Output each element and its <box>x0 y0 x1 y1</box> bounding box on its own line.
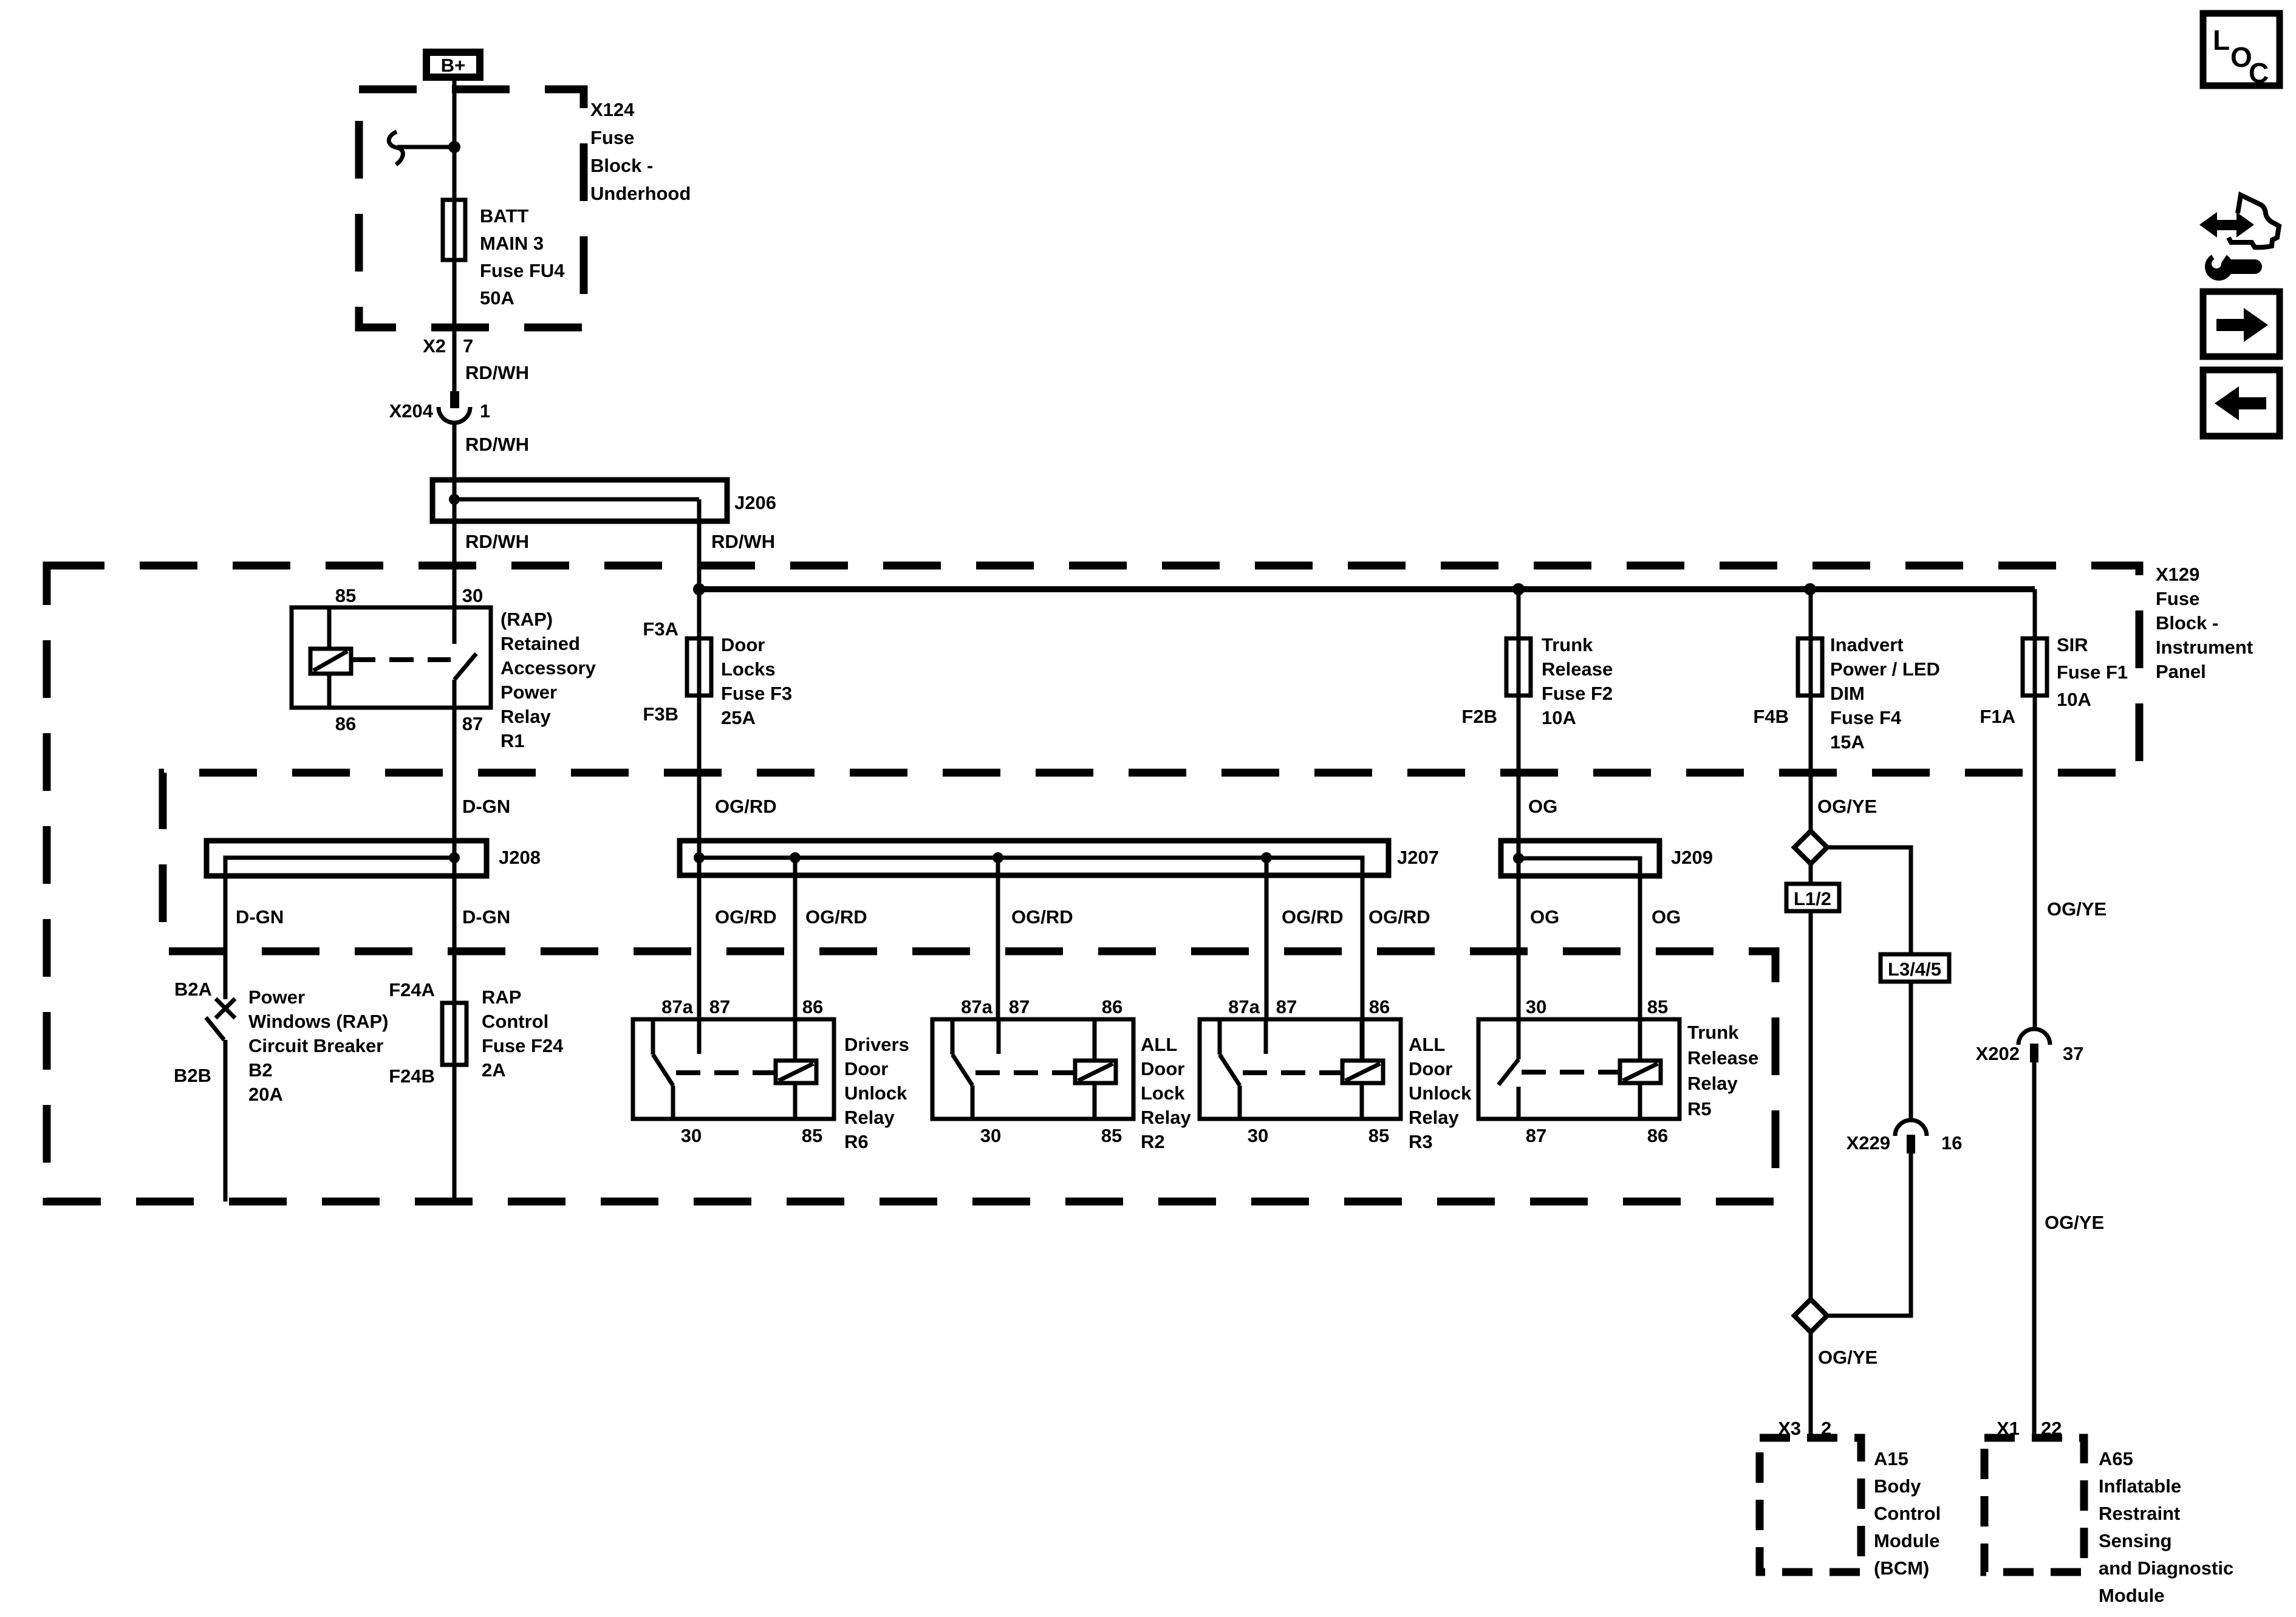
svg-text:86: 86 <box>1102 996 1122 1017</box>
svg-text:85: 85 <box>802 1125 822 1146</box>
diamond splice top on OG/YE <box>1794 831 1827 864</box>
svg-text:Inflatable: Inflatable <box>2099 1475 2181 1497</box>
svg-text:Lock: Lock <box>1141 1082 1185 1104</box>
svg-text:J208: J208 <box>499 847 541 868</box>
svg-text:10A: 10A <box>1542 707 1576 728</box>
connector X204 pin 1 <box>389 391 491 423</box>
splice J206 <box>432 480 776 521</box>
svg-text:Fuse F2: Fuse F2 <box>1542 683 1613 704</box>
svg-text:Relay: Relay <box>501 706 551 727</box>
svg-text:50A: 50A <box>480 287 514 309</box>
relay R6 Drivers Door Unlock <box>633 996 909 1152</box>
svg-text:Sensing: Sensing <box>2099 1530 2172 1551</box>
node A15 label <box>1874 1448 1941 1579</box>
node B+ battery terminal <box>426 52 480 77</box>
svg-text:OG: OG <box>1530 906 1559 928</box>
svg-text:R6: R6 <box>844 1131 869 1152</box>
svg-text:X2: X2 <box>423 335 446 357</box>
svg-text:OG/RD: OG/RD <box>1282 906 1344 928</box>
svg-text:J209: J209 <box>1671 847 1713 868</box>
svg-text:L1/2: L1/2 <box>1794 888 1831 909</box>
fusible link curl symbol <box>389 132 403 165</box>
wire F3 branch down from J206 <box>697 521 702 1054</box>
svg-text:Module: Module <box>1874 1530 1940 1551</box>
svg-text:F3B: F3B <box>643 703 678 725</box>
svg-text:RD/WH: RD/WH <box>465 531 529 552</box>
svg-text:OG/YE: OG/YE <box>2047 898 2106 920</box>
relay R3 ALL Door Unlock <box>1200 996 1472 1152</box>
wire X229 down to diamond <box>1827 1154 1911 1316</box>
forward arrow box <box>2203 292 2280 357</box>
svg-text:20A: 20A <box>248 1084 283 1105</box>
svg-text:Power / LED: Power / LED <box>1830 658 1940 680</box>
wire X202 down to A65 <box>2032 1062 2037 1438</box>
svg-text:Trunk: Trunk <box>1687 1022 1739 1043</box>
svg-text:87a: 87a <box>961 996 993 1017</box>
svg-text:Inadvert: Inadvert <box>1830 634 1904 655</box>
svg-text:Relay: Relay <box>1409 1107 1459 1128</box>
module A15 Body Control Module dashed box <box>1760 1438 1861 1572</box>
svg-text:X202: X202 <box>1976 1043 2020 1064</box>
fuse F4 Inadvert Power / LED DIM 15A <box>1753 634 1939 753</box>
svg-text:Relay: Relay <box>1687 1073 1738 1094</box>
svg-text:ALL: ALL <box>1409 1034 1445 1055</box>
svg-text:Fuse F1: Fuse F1 <box>2057 661 2128 683</box>
svg-text:85: 85 <box>335 585 356 606</box>
wire X204 to J206 <box>453 423 457 607</box>
svg-text:30: 30 <box>681 1125 702 1146</box>
pin X3 2 <box>1778 1418 1831 1439</box>
svg-text:16: 16 <box>1941 1132 1962 1154</box>
node X124 label <box>590 99 691 204</box>
svg-text:X124: X124 <box>590 99 635 120</box>
svg-text:D-GN: D-GN <box>462 906 510 928</box>
wire diamond to L3/4/5 branch <box>1827 847 1911 954</box>
svg-text:OG/YE: OG/YE <box>1817 796 1877 817</box>
svg-text:1: 1 <box>480 400 490 422</box>
svg-text:Relay: Relay <box>844 1107 895 1128</box>
svg-text:OG/RD: OG/RD <box>715 906 777 928</box>
vehicle diagnostic icon <box>2199 195 2279 281</box>
svg-text:87: 87 <box>1009 996 1030 1017</box>
svg-text:Panel: Panel <box>2156 661 2206 682</box>
svg-text:87: 87 <box>462 713 483 734</box>
fuse F24 RAP Control 2A <box>389 979 564 1087</box>
svg-text:86: 86 <box>802 996 823 1017</box>
svg-text:F24B: F24B <box>389 1065 435 1087</box>
circuit breaker B2 Power Windows (RAP) 20A <box>174 979 389 1202</box>
svg-text:R2: R2 <box>1141 1131 1165 1152</box>
svg-text:OG: OG <box>1528 796 1557 817</box>
svg-text:Fuse: Fuse <box>2156 588 2199 609</box>
wire fuse F4 down to diamond <box>1809 589 1813 831</box>
connector X229 pin 16 <box>1847 1120 1963 1154</box>
fuse F2 Trunk Release 10A <box>1461 634 1613 728</box>
relay R1 (RAP) Retained Accessory Power Relay <box>292 585 596 751</box>
wire fuse F2 down to J209 <box>1517 589 1521 1059</box>
svg-text:J207: J207 <box>1397 847 1439 868</box>
fuse block X129 dashed outline <box>47 566 2139 1202</box>
svg-text:10A: 10A <box>2057 689 2091 710</box>
svg-text:and Diagnostic: and Diagnostic <box>2099 1557 2233 1579</box>
svg-text:Fuse F3: Fuse F3 <box>721 683 792 704</box>
wire from curl to battery feed <box>397 145 454 149</box>
svg-text:B+: B+ <box>441 55 466 76</box>
fuse FU4 BATT MAIN 3 50A <box>443 200 565 309</box>
fuse block X124 dashed box <box>359 89 584 327</box>
svg-text:87: 87 <box>1526 1125 1546 1146</box>
svg-text:Fuse: Fuse <box>590 127 634 148</box>
splice J208 <box>207 841 541 999</box>
svg-text:87: 87 <box>1276 996 1297 1017</box>
svg-text:OG/YE: OG/YE <box>1818 1347 1877 1368</box>
svg-text:OG/RD: OG/RD <box>805 906 867 928</box>
module A65 Inflatable Restraint Sensing and Diagnostic Module dashed box <box>1984 1438 2084 1572</box>
svg-text:Underhood: Underhood <box>590 183 691 204</box>
svg-text:Restraint: Restraint <box>2099 1503 2180 1524</box>
svg-text:Block -: Block - <box>590 155 653 176</box>
svg-text:F1A: F1A <box>1980 706 2015 727</box>
svg-text:(BCM): (BCM) <box>1874 1557 1929 1579</box>
svg-text:F3A: F3A <box>643 618 678 640</box>
svg-text:Release: Release <box>1542 658 1613 680</box>
svg-text:Fuse F4: Fuse F4 <box>1830 707 1902 728</box>
svg-text:Fuse FU4: Fuse FU4 <box>480 260 565 281</box>
wire from B+ down through fuse FU4 to connector X204 <box>453 81 457 391</box>
svg-text:25A: 25A <box>721 707 756 728</box>
wire fuse F1 down to X202 <box>2033 589 2037 1030</box>
LOC legend box <box>2203 13 2280 89</box>
svg-text:C: C <box>2249 57 2269 89</box>
svg-text:F24A: F24A <box>389 979 435 1000</box>
wire diamond down to A15 <box>1809 1332 1813 1438</box>
wire J207 to R2 pin 87 <box>996 858 1000 1019</box>
svg-text:R3: R3 <box>1409 1131 1433 1152</box>
wire J207 to R6 pin 86 <box>793 858 798 1019</box>
svg-text:30: 30 <box>1526 996 1546 1017</box>
svg-text:Circuit Breaker: Circuit Breaker <box>248 1035 383 1056</box>
svg-text:A65: A65 <box>2099 1448 2133 1469</box>
svg-text:37: 37 <box>2063 1043 2083 1064</box>
svg-text:ALL: ALL <box>1141 1034 1177 1055</box>
junction <box>448 141 460 153</box>
back arrow box <box>2203 370 2280 436</box>
svg-text:B2: B2 <box>248 1059 273 1081</box>
svg-text:OG/RD: OG/RD <box>1011 906 1073 928</box>
svg-text:RD/WH: RD/WH <box>465 434 529 455</box>
svg-text:86: 86 <box>335 713 356 734</box>
svg-text:Drivers: Drivers <box>844 1034 909 1055</box>
svg-text:Door: Door <box>721 634 765 655</box>
svg-text:2A: 2A <box>482 1059 506 1081</box>
wire R1 pin 87 down through J208 and fuse F24 <box>453 680 457 1202</box>
svg-text:Control: Control <box>1874 1503 1941 1524</box>
node X129 label <box>2156 564 2253 682</box>
svg-text:86: 86 <box>1369 996 1390 1017</box>
relay R5 Trunk Release Relay <box>1478 996 1758 1146</box>
svg-text:Accessory: Accessory <box>501 657 596 679</box>
svg-text:Door: Door <box>1141 1058 1184 1079</box>
svg-text:86: 86 <box>1647 1125 1668 1146</box>
svg-text:30: 30 <box>980 1125 1001 1146</box>
svg-text:L3/4/5: L3/4/5 <box>1888 959 1941 980</box>
svg-text:OG/YE: OG/YE <box>2045 1212 2104 1233</box>
svg-text:85: 85 <box>1368 1125 1389 1146</box>
svg-text:X229: X229 <box>1847 1132 1890 1154</box>
svg-text:Power: Power <box>501 682 557 703</box>
svg-text:Locks: Locks <box>721 658 776 680</box>
splice J209 <box>1501 841 1713 1019</box>
node A65 label <box>2099 1448 2233 1606</box>
svg-text:Module: Module <box>2099 1585 2165 1606</box>
svg-text:Relay: Relay <box>1141 1107 1191 1128</box>
svg-text:B2A: B2A <box>174 979 212 1000</box>
svg-text:Body: Body <box>1874 1475 1921 1497</box>
svg-text:Block -: Block - <box>2156 612 2218 634</box>
svg-text:Retained: Retained <box>501 633 580 654</box>
pin X1 22 <box>1997 1418 2062 1439</box>
svg-text:85: 85 <box>1647 996 1668 1017</box>
wire main OG/YE down <box>1809 864 1813 1299</box>
splice J207 <box>680 841 1439 1061</box>
svg-text:MAIN 3: MAIN 3 <box>480 233 544 254</box>
svg-text:Instrument: Instrument <box>2156 637 2253 658</box>
svg-text:R5: R5 <box>1687 1098 1712 1120</box>
svg-text:7: 7 <box>463 335 473 357</box>
svg-text:OG/RD: OG/RD <box>1368 906 1430 928</box>
wire L3/4/5 to X229 <box>1909 982 1913 1121</box>
svg-text:30: 30 <box>462 585 483 606</box>
svg-text:15A: 15A <box>1830 731 1865 753</box>
svg-text:OG/RD: OG/RD <box>715 796 777 817</box>
svg-text:RD/WH: RD/WH <box>465 362 529 383</box>
wire J207 to R3 pin 87 <box>1265 858 1269 1019</box>
svg-text:B2B: B2B <box>174 1065 211 1086</box>
fuse F1 SIR 10A <box>1980 634 2128 727</box>
svg-text:Release: Release <box>1687 1047 1758 1068</box>
svg-text:R1: R1 <box>501 730 525 751</box>
svg-text:Windows (RAP): Windows (RAP) <box>248 1011 388 1032</box>
svg-text:L: L <box>2213 24 2230 56</box>
bus wire across fuse block <box>699 586 2035 592</box>
svg-text:F4B: F4B <box>1753 706 1789 727</box>
svg-text:A15: A15 <box>1874 1448 1908 1469</box>
pin X2 7 <box>423 335 473 357</box>
diamond splice bottom on OG/YE <box>1794 1299 1827 1332</box>
svg-text:OG: OG <box>1652 906 1681 928</box>
svg-text:87a: 87a <box>1228 996 1260 1017</box>
svg-text:Unlock: Unlock <box>1409 1082 1472 1104</box>
svg-text:Unlock: Unlock <box>844 1082 907 1104</box>
svg-text:D-GN: D-GN <box>236 906 284 928</box>
svg-text:85: 85 <box>1101 1125 1122 1146</box>
svg-text:SIR: SIR <box>2057 634 2088 655</box>
svg-text:X204: X204 <box>389 400 434 422</box>
svg-text:RD/WH: RD/WH <box>711 531 775 552</box>
node L3/4/5 reference <box>1881 954 1949 982</box>
svg-text:Trunk: Trunk <box>1542 634 1593 655</box>
svg-text:F2B: F2B <box>1461 706 1497 727</box>
svg-text:BATT: BATT <box>480 205 528 227</box>
svg-text:RAP: RAP <box>482 986 521 1008</box>
connector X202 pin 37 <box>1976 1029 2084 1064</box>
svg-text:X129: X129 <box>2156 564 2199 585</box>
svg-text:D-GN: D-GN <box>462 796 510 817</box>
svg-text:87: 87 <box>709 996 730 1017</box>
svg-text:(RAP): (RAP) <box>501 609 553 630</box>
svg-text:Control: Control <box>482 1011 548 1032</box>
fuse F3 Door Locks 25A <box>643 618 792 728</box>
svg-text:Door: Door <box>844 1058 888 1079</box>
svg-text:Fuse F24: Fuse F24 <box>482 1035 564 1056</box>
svg-text:Power: Power <box>248 986 305 1008</box>
svg-text:DIM: DIM <box>1830 683 1865 704</box>
relay R2 ALL Door Lock <box>932 996 1191 1152</box>
svg-text:J206: J206 <box>734 492 776 513</box>
node L1/2 reference <box>1786 884 1839 911</box>
svg-text:87a: 87a <box>661 996 693 1017</box>
svg-text:30: 30 <box>1248 1125 1268 1146</box>
svg-text:Door: Door <box>1409 1058 1452 1079</box>
